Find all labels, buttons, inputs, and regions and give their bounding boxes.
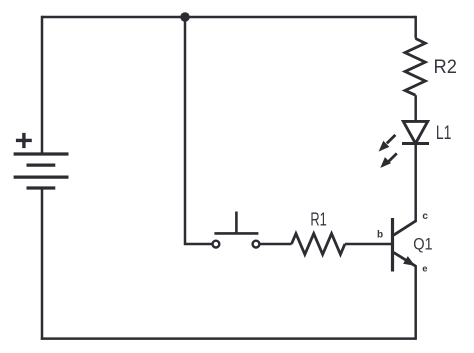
wire left vertical upper xyxy=(41,16,44,154)
wire R1 to transistor base xyxy=(345,243,391,246)
pin label c xyxy=(422,211,428,222)
pin label b xyxy=(377,229,383,240)
wire left vertical lower xyxy=(41,188,44,340)
LED L1 emission arrow 2 xyxy=(380,153,397,168)
wire top horizontal xyxy=(42,16,416,19)
transistor Q1 base bar xyxy=(391,218,394,272)
svg-text:Q1: Q1 xyxy=(413,235,433,254)
wire bottom horizontal xyxy=(41,337,416,340)
svg-text:e: e xyxy=(422,264,427,275)
wire middle vertical from junction xyxy=(185,17,213,244)
LED L1 label xyxy=(436,123,452,144)
resistor R1 label xyxy=(310,208,326,229)
LED L1 emission arrow 1 xyxy=(379,135,396,152)
LED L1 cathode bar xyxy=(402,142,429,145)
resistor R2 label xyxy=(434,57,457,78)
svg-text:L1: L1 xyxy=(436,123,452,144)
wire right vertical top xyxy=(414,16,417,39)
svg-text:b: b xyxy=(377,229,383,240)
wire collector vertical xyxy=(414,144,417,223)
svg-text:R2: R2 xyxy=(434,57,457,78)
battery B1 plus sign xyxy=(16,133,32,148)
battery B1 plates xyxy=(14,154,69,188)
transistor Q1 collector diagonal xyxy=(394,221,416,235)
pushbutton switch actuator bar xyxy=(214,212,258,235)
transistor Q1 emitter arrowhead xyxy=(403,256,415,266)
pushbutton switch left terminal xyxy=(213,241,220,248)
svg-text:R1: R1 xyxy=(310,208,326,229)
pushbutton switch right terminal xyxy=(253,241,260,248)
wire emitter vertical xyxy=(414,265,417,340)
resistor R2 zigzag xyxy=(405,39,425,96)
pin label e xyxy=(422,264,427,275)
wire switch to R1 xyxy=(260,243,292,246)
wire R2 to LED xyxy=(414,95,417,121)
transistor Q1 emitter diagonal xyxy=(394,252,416,266)
transistor Q1 label xyxy=(413,235,433,254)
svg-text:c: c xyxy=(422,211,428,222)
LED L1 triangle xyxy=(403,121,427,143)
resistor R1 zigzag xyxy=(292,234,345,255)
node junction dot xyxy=(180,12,190,22)
